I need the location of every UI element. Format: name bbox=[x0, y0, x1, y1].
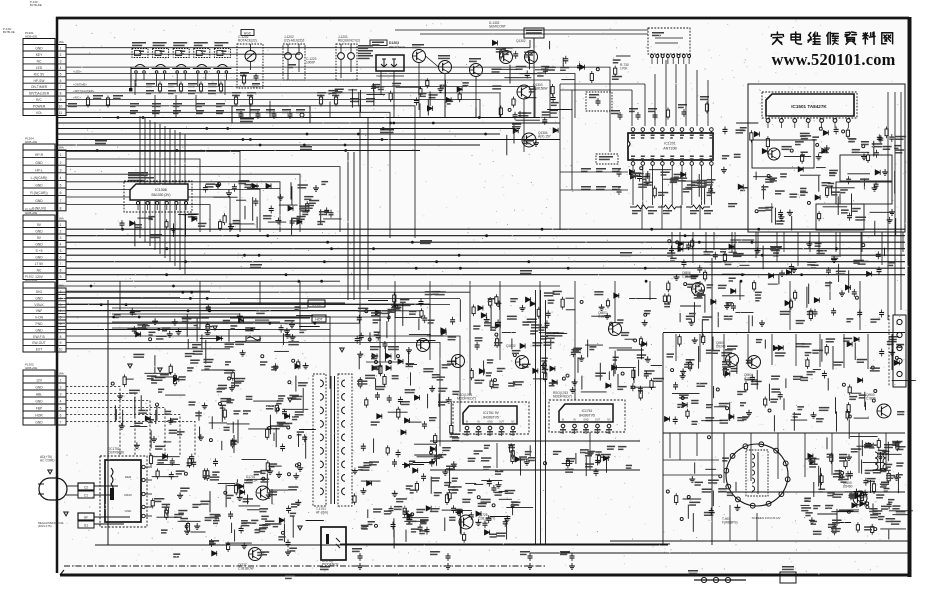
svg-text:PND: PND bbox=[36, 322, 44, 326]
svg-text:GND: GND bbox=[35, 400, 43, 404]
cluster IC201 right band bbox=[726, 302, 733, 304]
bottom left tick bbox=[60, 570, 64, 575]
vertical field section box bbox=[748, 84, 905, 232]
svg-text:NC: NC bbox=[37, 60, 42, 64]
svg-text:V-ON: V-ON bbox=[35, 316, 44, 320]
COLD label box bbox=[308, 300, 325, 307]
svg-text:R-(N(CAR)): R-(N(CAR)) bbox=[30, 191, 47, 195]
right section drops bbox=[676, 334, 892, 370]
cluster around CRT bbox=[848, 454, 850, 457]
transistor Q1304 bbox=[522, 133, 536, 147]
schematic sheet border frame right bbox=[908, 17, 912, 577]
horizontal wire y553 bbox=[530, 552, 908, 554]
cluster Q1400 area bbox=[832, 494, 843, 496]
cluster below CRT bbox=[702, 489, 713, 491]
diode D1306 pair bbox=[247, 184, 280, 189]
flyback coils bbox=[864, 444, 893, 470]
cluster right mid bbox=[879, 351, 884, 353]
svg-text:HP-SW: HP-SW bbox=[34, 79, 46, 83]
P201 header pins bbox=[651, 55, 691, 65]
power section left boundary bbox=[107, 300, 109, 545]
wires from connector P1301 bbox=[66, 48, 610, 238]
transistor Q1807 bbox=[609, 323, 622, 336]
main horizontal power bus bundle bbox=[66, 229, 905, 281]
svg-text:GND: GND bbox=[35, 184, 43, 188]
svg-text:LED: LED bbox=[36, 66, 43, 70]
svg-text:L-(N(CAR)): L-(N(CAR)) bbox=[31, 176, 48, 180]
IC1306 BA1330 stereo decoder bbox=[124, 181, 192, 212]
AGC small parts bbox=[240, 72, 260, 87]
regulator area wires bbox=[430, 432, 640, 470]
transistor Q1602 bbox=[748, 356, 761, 369]
horizontal wire y492 bbox=[718, 491, 905, 493]
IC1501 sub-boxes bbox=[752, 140, 892, 230]
bus bundle lower-left bbox=[57, 286, 560, 329]
svg-text:GND: GND bbox=[35, 328, 43, 332]
J-1202 dashed box bbox=[283, 44, 305, 80]
cluster right of IC1306 bbox=[236, 199, 246, 201]
IF coil rounded box bbox=[232, 106, 310, 123]
power top rail bbox=[230, 302, 345, 304]
cluster mid sync bbox=[357, 317, 362, 319]
svg-text:GND: GND bbox=[35, 199, 43, 203]
transistor Q1701 bbox=[256, 486, 270, 500]
svg-text:VNF: VNF bbox=[36, 309, 43, 313]
svg-text:GND: GND bbox=[35, 421, 43, 425]
Q130x cluster bbox=[551, 87, 554, 94]
AGC pot dashed box bbox=[237, 44, 263, 88]
cluster IC1501 lower bbox=[855, 217, 866, 219]
transistor Q1601 bbox=[726, 354, 739, 367]
wire Q1303 down bbox=[523, 99, 525, 152]
svg-text:GND: GND bbox=[35, 243, 43, 247]
POWER ON/OFF box bbox=[524, 28, 544, 38]
svg-text:HDB+DE: HDB+DE bbox=[25, 211, 37, 215]
warning triangles power bbox=[128, 326, 345, 530]
SEMICONT label box bbox=[370, 40, 387, 46]
signal bus bundle upper bbox=[57, 118, 560, 151]
svg-text:HP-R: HP-R bbox=[35, 153, 44, 157]
svg-text:V-BLK: V-BLK bbox=[34, 303, 44, 307]
node square at filter input bbox=[129, 88, 132, 91]
cluster right of Q1201 bbox=[440, 86, 442, 89]
IF coil contents bbox=[236, 109, 305, 119]
svg-text:POWER: POWER bbox=[33, 105, 46, 109]
cluster power primary bbox=[292, 359, 295, 362]
dash-dot hot ground rail bbox=[64, 565, 340, 567]
svg-text:SH2: SH2 bbox=[36, 290, 43, 294]
cluster mid bottom strip bbox=[389, 508, 394, 510]
transistor Q1713 bbox=[452, 355, 465, 368]
svg-text:GND: GND bbox=[35, 386, 43, 390]
right bottom drops bbox=[670, 433, 886, 483]
transistor Q1303 bbox=[517, 85, 531, 99]
power section bottom bbox=[95, 544, 668, 546]
cluster Q1725 area bbox=[452, 489, 459, 491]
right edge connector bbox=[893, 315, 906, 387]
svg-text:EW-OUT: EW-OUT bbox=[32, 341, 45, 345]
right section vertical wire B bbox=[711, 258, 713, 545]
filter bus joining wires bbox=[135, 80, 225, 117]
cluster between IC201 and IC1501 bbox=[723, 167, 725, 170]
top long wires bbox=[395, 30, 648, 34]
svg-text:GND: GND bbox=[35, 161, 43, 165]
IC1306 labels bbox=[128, 172, 154, 181]
Q120x wires bbox=[419, 56, 476, 118]
transistor Q1806 bbox=[692, 283, 705, 296]
cluster above IC201 left bbox=[562, 57, 564, 67]
svg-text:HDB+DE: HDB+DE bbox=[25, 140, 37, 144]
transistor Q1802 bbox=[516, 356, 529, 369]
transistor Q1203 bbox=[413, 50, 426, 63]
cluster right upper-mid bbox=[831, 255, 839, 257]
bottom small box bbox=[780, 572, 796, 583]
AGC pot bbox=[245, 51, 256, 62]
svg-text:R/C 5V: R/C 5V bbox=[34, 72, 45, 76]
J-1201 trimmers bbox=[338, 44, 355, 78]
svg-text:ABL: ABL bbox=[36, 393, 42, 397]
HOT label box bbox=[312, 315, 326, 322]
svg-text:SP(T)ALIZER: SP(T)ALIZER bbox=[29, 92, 50, 96]
stub drops right of bus bbox=[672, 232, 903, 266]
bottom rail components bbox=[285, 548, 575, 579]
svg-text:BLTR-DE: BLTR-DE bbox=[30, 3, 42, 7]
vertical interconnect bundle bbox=[140, 116, 185, 274]
wire long bottom bbox=[340, 543, 670, 545]
CRT wires bbox=[663, 433, 757, 541]
svg-text:LT 5V: LT 5V bbox=[35, 262, 44, 266]
cap row above IC201 bbox=[611, 96, 709, 120]
dashed box SL1202 bbox=[596, 154, 618, 164]
transistor Q1732 bbox=[249, 548, 262, 561]
plug wires bbox=[66, 486, 130, 524]
cluster left of power bbox=[681, 261, 686, 263]
wire filter input drop bbox=[130, 67, 132, 88]
svg-text:ON-TIMER: ON-TIMER bbox=[31, 85, 48, 89]
cluster under regulators bbox=[595, 459, 600, 461]
G1 box bbox=[78, 521, 94, 528]
P201 inner marks bbox=[652, 32, 683, 43]
transistor Q1725 bbox=[459, 515, 473, 529]
cluster below IC201 bbox=[708, 188, 713, 190]
transistor Q1204 bbox=[470, 64, 483, 77]
switching transformer T1701 bbox=[313, 374, 326, 506]
wire junction dots bbox=[90, 116, 838, 330]
cluster under J1201 bbox=[328, 90, 338, 92]
component rows left of IC201 bbox=[560, 168, 628, 195]
CRT socket assembly bbox=[726, 444, 788, 506]
resistor row bottom IC201 bbox=[630, 205, 713, 214]
vertical power trunk at x536-546 bbox=[536, 290, 546, 544]
svg-text:EXT: EXT bbox=[36, 348, 42, 352]
photocoupler IC1700 bbox=[321, 527, 346, 560]
svg-text:12V: 12V bbox=[36, 379, 43, 383]
AGC label box bbox=[241, 30, 254, 36]
mains plug bbox=[39, 478, 67, 500]
bridge rectifier D1701-D1704 bbox=[366, 346, 400, 371]
svg-text:BLTB-OE: BLTB-OE bbox=[3, 30, 15, 34]
right section vertical wire A bbox=[662, 333, 664, 545]
mid resistor row R-1211 group bbox=[232, 92, 375, 107]
transistor Q1400 bbox=[853, 491, 867, 505]
svg-text:!: ! bbox=[50, 470, 51, 474]
svg-text:EW-F B: EW-F B bbox=[33, 335, 45, 339]
IC1201 video chroma IC bbox=[628, 133, 713, 160]
svg-text:AC CORD: AC CORD bbox=[40, 459, 55, 463]
V-out wires right bbox=[888, 92, 901, 320]
svg-text:HP-L: HP-L bbox=[35, 168, 43, 172]
svg-text:HDB+DE: HDB+DE bbox=[25, 278, 37, 282]
stub rises into IC1501 box bbox=[680, 232, 888, 252]
svg-text:NC: NC bbox=[37, 269, 42, 273]
IC1501 TA8427K vertical output IC bbox=[762, 92, 857, 118]
transistor Q1900 bbox=[877, 404, 891, 418]
svg-text:S +5: S +5 bbox=[36, 249, 43, 253]
schematic sheet border frame top bbox=[56, 17, 909, 20]
filter pull-down resistor labels bbox=[146, 82, 223, 95]
svg-text:(DGS-175): (DGS-175) bbox=[38, 524, 52, 528]
cluster power primary low bbox=[278, 471, 280, 474]
svg-text:KEY: KEY bbox=[36, 53, 43, 57]
IC201 long drops bbox=[642, 205, 700, 229]
transistor Q1201 bbox=[439, 61, 452, 74]
svg-text:HDB+DE: HDB+DE bbox=[25, 34, 37, 38]
vertical risers to tuner bbox=[250, 101, 520, 117]
svg-text:HDB+DE: HDB+DE bbox=[25, 366, 37, 370]
wires above IC201 bbox=[560, 60, 708, 126]
bus labels upper bbox=[95, 118, 394, 150]
fuse F1701 bbox=[246, 336, 260, 341]
svg-text:HOR: HOR bbox=[35, 414, 43, 418]
C1 capacitor box bbox=[78, 491, 94, 498]
tuner input filter units S-1201..S-1205 bbox=[131, 42, 231, 86]
horizontal wire y332 bbox=[663, 332, 905, 334]
svg-text:R/C: R/C bbox=[36, 98, 42, 102]
schematic sheet border frame left bbox=[56, 17, 59, 573]
cluster power secondary bbox=[402, 464, 424, 466]
svg-text:GND: GND bbox=[35, 256, 43, 260]
svg-text:GND: GND bbox=[35, 47, 43, 51]
schematic sheet border frame bottom bbox=[60, 574, 910, 577]
svg-text:GND: GND bbox=[35, 230, 43, 234]
watermark chinese text bbox=[776, 32, 778, 34]
horizontal wire y541 bbox=[610, 540, 908, 542]
C2 capacitor box bbox=[78, 483, 94, 490]
resistor cluster R-1204 group bbox=[68, 95, 225, 114]
transistor Q1301 bbox=[500, 51, 513, 64]
J-1202 trimmers bbox=[285, 44, 303, 80]
IC1751 STR-F6656 switching regulator bbox=[100, 456, 147, 527]
svg-text:GND: GND bbox=[35, 296, 43, 300]
cluster mid3 bbox=[644, 310, 651, 312]
vertical drops from power bus bbox=[120, 281, 860, 400]
svg-text:Y-(N(UV)): Y-(N(UV)) bbox=[32, 206, 46, 210]
J-1201 dashed box bbox=[336, 44, 357, 80]
dashed standby wiring stair bbox=[66, 387, 195, 457]
svg-text:VOL: VOL bbox=[36, 111, 43, 115]
RMC1201 text block bbox=[358, 45, 373, 59]
trap dashed box L1203 bbox=[586, 92, 612, 111]
dashdot rail extension bbox=[340, 565, 545, 567]
wires from connector P1302 bbox=[66, 291, 460, 446]
wires from connector P1304 bbox=[66, 151, 340, 232]
P201 dashed header box bbox=[648, 28, 690, 54]
cluster IC1501 upper bbox=[878, 137, 883, 139]
wires below IC201 bbox=[633, 165, 711, 205]
vertical trunk lines center bbox=[348, 118, 368, 300]
cluster under IC1306 bbox=[130, 221, 135, 226]
svg-text:FBP: FBP bbox=[36, 407, 43, 411]
wire from P1301 to Q1301 area bbox=[529, 40, 531, 48]
cluster bottom power strip bbox=[273, 523, 282, 525]
GF box bbox=[78, 513, 94, 520]
horizontal wire y433 bbox=[663, 432, 905, 434]
warning triangle degauss bbox=[64, 512, 69, 516]
transistor Q1712 bbox=[417, 339, 430, 352]
D1203 diode pack box bbox=[376, 55, 404, 71]
wires under D1203 bbox=[376, 71, 404, 110]
cluster mid2 bbox=[489, 300, 492, 306]
bottom connector bbox=[688, 570, 746, 583]
transistor Q1302 bbox=[525, 51, 538, 64]
bus labels mid bbox=[150, 234, 782, 274]
transistor Q1503 bbox=[768, 148, 780, 160]
